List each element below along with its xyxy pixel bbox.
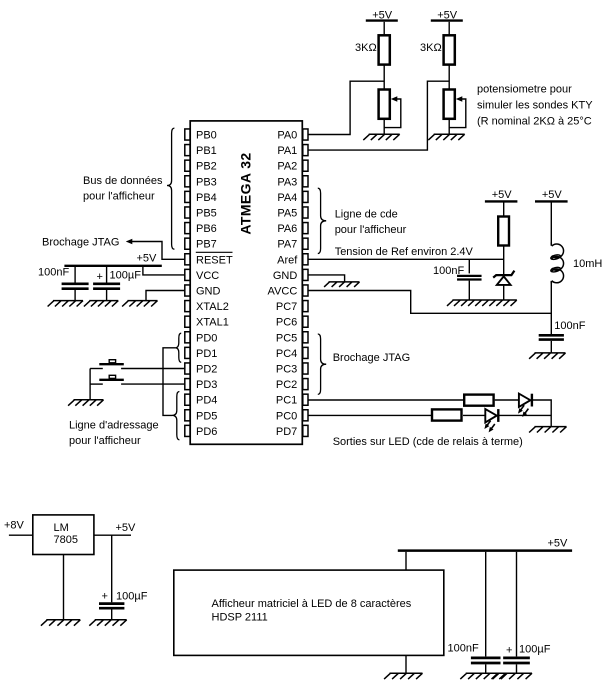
svg-text:PA7: PA7	[277, 239, 297, 251]
pin PD6 (left)	[185, 425, 218, 438]
wire resistor to potentiometer, node tee	[448, 65, 450, 90]
pin PB3 (left)	[185, 176, 217, 189]
pin PB6 (left)	[185, 223, 217, 236]
pin PC3 (right)	[276, 363, 308, 376]
svg-text:pour l'afficheur: pour l'afficheur	[83, 190, 155, 202]
svg-text:LM: LM	[54, 522, 69, 534]
ground (KTY branch 2)	[428, 134, 464, 140]
svg-text:RESET: RESET	[196, 254, 233, 266]
svg-text:PD1: PD1	[196, 348, 217, 360]
wire 7805 GND pin to ground	[63, 555, 65, 620]
note: potentiometer description text	[477, 83, 593, 127]
wire +8V input	[9, 534, 33, 536]
pin GND (left)	[185, 285, 221, 298]
pin PA2 (right)	[277, 160, 308, 173]
svg-text:HDSP 2111: HDSP 2111	[212, 611, 268, 623]
wire potentiometer to ground	[383, 119, 385, 134]
resistor 3KΩ (branch 1)	[355, 35, 390, 64]
IC U1 ATMEGA 32 body	[190, 121, 302, 444]
svg-text:PB7: PB7	[196, 239, 217, 251]
resistor (zener branch, no value)	[498, 217, 509, 246]
wire potentiometer to ground	[448, 119, 450, 134]
inductor L1 10mH	[550, 243, 602, 284]
svg-text:10mH: 10mH	[573, 258, 602, 270]
ground (under 100µF)	[84, 301, 118, 307]
ground (AVCC filter)	[529, 353, 565, 359]
svg-text:PA3: PA3	[277, 176, 297, 188]
svg-text:100µF: 100µF	[519, 644, 551, 656]
wire PC1 to resistor	[308, 399, 463, 401]
svg-text:PC2: PC2	[276, 379, 297, 391]
pin PC1 (right)	[276, 394, 308, 407]
label Bus de données pour l'afficheur	[83, 175, 163, 202]
pin PA6 (right)	[277, 223, 308, 236]
pin PA7 (right)	[277, 238, 308, 251]
svg-text:+5V: +5V	[137, 253, 158, 265]
pin PA0 (right)	[277, 129, 308, 142]
pin PB1 (left)	[185, 145, 217, 158]
wire resistor to LED1	[495, 399, 519, 401]
ground (display)	[384, 673, 422, 679]
ground (LED outputs)	[529, 427, 566, 433]
svg-text:GND: GND	[196, 286, 221, 298]
+5V supply symbol (KTY branch 1)	[366, 10, 398, 22]
svg-text:PA5: PA5	[277, 208, 297, 220]
svg-text:+5V: +5V	[548, 537, 569, 549]
wire display GND to ground	[405, 655, 407, 673]
pin PC0 (right)	[276, 410, 308, 423]
svg-text:PD5: PD5	[196, 410, 217, 422]
svg-text:PB4: PB4	[196, 192, 217, 204]
pin PD1 (left)	[185, 347, 218, 360]
capacitor 100µF (regulator output)	[99, 535, 148, 620]
brace PD0-PD1 (address lines)	[175, 333, 181, 362]
svg-text:PC1: PC1	[276, 395, 297, 407]
wire LED1 to ground line	[532, 400, 551, 427]
brace bus PB0-PB7	[167, 128, 174, 249]
svg-text:PB2: PB2	[196, 161, 217, 173]
svg-text:PD2: PD2	[196, 364, 217, 376]
svg-text:+8V: +8V	[4, 520, 25, 532]
svg-text:3KΩ: 3KΩ	[420, 42, 442, 54]
svg-text:AVCC: AVCC	[268, 286, 298, 298]
svg-text:Sorties sur LED (cde de relais: Sorties sur LED (cde de relais à terme)	[333, 436, 523, 448]
wire +5V rail to VCC pin	[143, 267, 184, 275]
svg-text:(R nominal 2KΩ à 25°C: (R nominal 2KΩ à 25°C	[477, 115, 592, 127]
wire +5V to resistor	[383, 22, 385, 35]
LED D2 (PC1)	[518, 394, 532, 417]
pin PB5 (left)	[185, 207, 217, 220]
pin PB0 (left)	[185, 129, 217, 142]
svg-text:PB0: PB0	[196, 130, 217, 142]
svg-text:ATMEGA 32: ATMEGA 32	[237, 152, 253, 234]
svg-text:100nF: 100nF	[433, 265, 464, 277]
svg-text:PA6: PA6	[277, 223, 297, 235]
svg-text:PB6: PB6	[196, 223, 217, 235]
svg-text:7805: 7805	[54, 534, 78, 546]
pin VCC (left)	[185, 269, 219, 282]
capacitor 100µF (display)	[503, 552, 551, 673]
svg-text:PC0: PC0	[276, 410, 297, 422]
ground (GND pin)	[122, 301, 157, 307]
ground (100nF display)	[460, 673, 505, 679]
svg-text:PD0: PD0	[196, 332, 217, 344]
svg-text:+: +	[506, 645, 512, 657]
brace PD4-PD6 (address lines)	[172, 392, 179, 440]
svg-text:GND: GND	[273, 270, 298, 282]
svg-text:PC3: PC3	[276, 364, 297, 376]
svg-text:simuler les sondes KTY: simuler les sondes KTY	[477, 99, 593, 111]
svg-text:PD4: PD4	[196, 395, 217, 407]
svg-text:100nF: 100nF	[448, 642, 479, 654]
ground (KTY branch 1)	[363, 134, 399, 140]
pin PB4 (left)	[185, 191, 217, 204]
svg-text:Bus de données: Bus de données	[83, 175, 163, 187]
wire rail to display VCC	[405, 552, 407, 570]
wire resistor to potentiometer, node tee	[383, 65, 385, 90]
ground (switches)	[68, 400, 103, 406]
wire inductor to 100nF node	[550, 281, 552, 334]
svg-text:+: +	[102, 590, 108, 602]
capacitor 100nF (VCC rail)	[38, 267, 89, 301]
pin PD2 (left)	[185, 363, 218, 376]
svg-text:Tension de Ref environ 2.4V: Tension de Ref environ 2.4V	[335, 246, 474, 258]
label ATMEGA 32	[237, 152, 253, 234]
ground (100µF display)	[493, 673, 532, 679]
pin PD0 (left)	[185, 332, 218, 345]
push-button switch S2 on PD3	[90, 375, 184, 384]
pin PC4 (right)	[276, 347, 308, 360]
pin PC6 (right)	[276, 316, 308, 329]
pin PA3 (right)	[277, 176, 308, 189]
pin PA1 (right)	[277, 145, 308, 158]
+5V rail (display)	[398, 537, 572, 550]
svg-text:+5V: +5V	[116, 522, 137, 534]
pin PA4 (right)	[277, 191, 308, 204]
wire +5V to inductor	[550, 203, 552, 245]
pin PB7 (left)	[185, 238, 217, 251]
+5V supply symbol (zener branch)	[485, 189, 518, 202]
label Ligne d'adressage pour l'afficheur	[69, 420, 159, 447]
pin PD3 (left)	[185, 379, 218, 392]
svg-text:PB5: PB5	[196, 208, 217, 220]
wire resistor to zener, Aref node	[503, 247, 505, 275]
svg-text:PD3: PD3	[196, 379, 217, 391]
resistor (PC0 LED)	[432, 409, 462, 420]
svg-text:+: +	[97, 271, 103, 283]
pin XTAL2 (left)	[185, 301, 229, 314]
svg-text:pour l'afficheur: pour l'afficheur	[69, 435, 141, 447]
svg-text:PA4: PA4	[277, 192, 297, 204]
svg-text:PC4: PC4	[276, 348, 297, 360]
wire +5V to resistor	[448, 22, 450, 35]
wire tap to PA0	[308, 81, 384, 134]
LED D3 (PC0)	[484, 409, 498, 432]
wire linking address-line braces	[163, 348, 175, 416]
svg-text:PC5: PC5	[276, 332, 297, 344]
potentiometer P2	[444, 90, 466, 128]
ground (zener + cap, wide)	[447, 300, 517, 306]
svg-text:VCC: VCC	[196, 270, 219, 282]
potentiometer P1	[379, 90, 401, 128]
svg-text:Brochage JTAG: Brochage JTAG	[42, 236, 119, 248]
wire LED2 to ground line	[498, 414, 551, 416]
pin Aref (right)	[277, 254, 308, 267]
pin GND (right)	[273, 269, 308, 282]
svg-text:PC7: PC7	[276, 301, 297, 313]
wire PC0 to resistor	[308, 414, 431, 416]
svg-text:100µF: 100µF	[116, 591, 148, 603]
wire switches common to ground	[89, 369, 91, 400]
brace PC5-PC2 (JTAG)	[318, 334, 326, 394]
ground (100µF regulator)	[89, 620, 126, 626]
svg-text:+5V: +5V	[492, 189, 513, 201]
ground (7805)	[41, 620, 80, 626]
resistor 3KΩ (branch 2)	[420, 35, 455, 64]
svg-text:PB3: PB3	[196, 176, 217, 188]
pin PC5 (right)	[276, 332, 308, 345]
+5V supply symbol (KTY branch 2)	[431, 10, 463, 22]
svg-text:pour l'afficheur: pour l'afficheur	[335, 224, 407, 236]
svg-text:PD6: PD6	[196, 426, 217, 438]
wire AVCC to inductor node	[308, 291, 551, 314]
capacitor 100nF (display)	[448, 552, 501, 673]
pin PD7 (right)	[276, 425, 308, 438]
capacitor 100nF (AVCC filter)	[539, 320, 586, 353]
capacitor 100nF (Aref)	[433, 259, 482, 300]
display module HDSP2111	[174, 570, 444, 655]
pin PC2 (right)	[276, 379, 308, 392]
wire tap to PA1	[308, 81, 449, 150]
pin XTAL1 (left)	[185, 316, 229, 329]
capacitor 100µF (VCC rail)	[93, 267, 141, 301]
svg-text:100nF: 100nF	[38, 267, 69, 279]
push-button switch S1 on PD2	[90, 360, 184, 369]
svg-text:XTAL2: XTAL2	[196, 301, 229, 313]
svg-text:Ligne de cde: Ligne de cde	[335, 209, 398, 221]
pin AVCC (right)	[268, 285, 308, 298]
svg-text:PB1: PB1	[196, 145, 217, 157]
svg-text:Brochage JTAG: Brochage JTAG	[333, 352, 410, 364]
svg-text:Aref: Aref	[277, 254, 298, 266]
resistor (PC1 LED)	[464, 395, 493, 406]
svg-text:PA1: PA1	[277, 145, 297, 157]
pin PD5 (left)	[185, 410, 218, 423]
svg-text:PA0: PA0	[277, 130, 297, 142]
svg-text:PA2: PA2	[277, 161, 297, 173]
svg-text:Ligne d'adressage: Ligne d'adressage	[69, 420, 159, 432]
wire Aref to zener node	[308, 258, 503, 260]
zener diode D1	[493, 271, 514, 300]
svg-text:PC6: PC6	[276, 317, 297, 329]
svg-text:PD7: PD7	[276, 426, 297, 438]
pin PC7 (right)	[276, 301, 308, 314]
wire +5V to resistor (zener branch)	[503, 203, 505, 216]
ground (right GND pin)	[308, 275, 359, 287]
label Brochage JTAG (left) with arrow to RESET	[42, 236, 184, 259]
pin PB2 (left)	[185, 160, 217, 173]
wire 7805 output, +5V node	[94, 522, 136, 535]
label Ligne de cde pour l'afficheur	[335, 209, 407, 236]
brace PA4-PA7 (cde lines)	[318, 188, 326, 253]
svg-text:+5V: +5V	[542, 189, 563, 201]
svg-text:potensiometre pour: potensiometre pour	[477, 83, 572, 95]
pin PA5 (right)	[277, 207, 308, 220]
svg-text:3KΩ: 3KΩ	[355, 42, 377, 54]
regulator U2 LM 7805	[33, 515, 94, 555]
svg-text:XTAL1: XTAL1	[196, 317, 229, 329]
wire GND pin to ground	[146, 291, 184, 301]
svg-text:100nF: 100nF	[554, 320, 585, 332]
pin RESET (left)	[185, 252, 233, 266]
ground (under 100nF)	[48, 301, 83, 307]
+5V supply symbol (inductor branch)	[535, 189, 568, 202]
+5V rail (VCC)	[64, 253, 161, 266]
svg-text:Afficheur matriciel à LED de 8: Afficheur matriciel à LED de 8 caractère…	[212, 598, 412, 610]
wire resistor to LED2	[463, 414, 485, 416]
svg-text:100µF: 100µF	[110, 269, 142, 281]
pin PD4 (left)	[185, 394, 218, 407]
